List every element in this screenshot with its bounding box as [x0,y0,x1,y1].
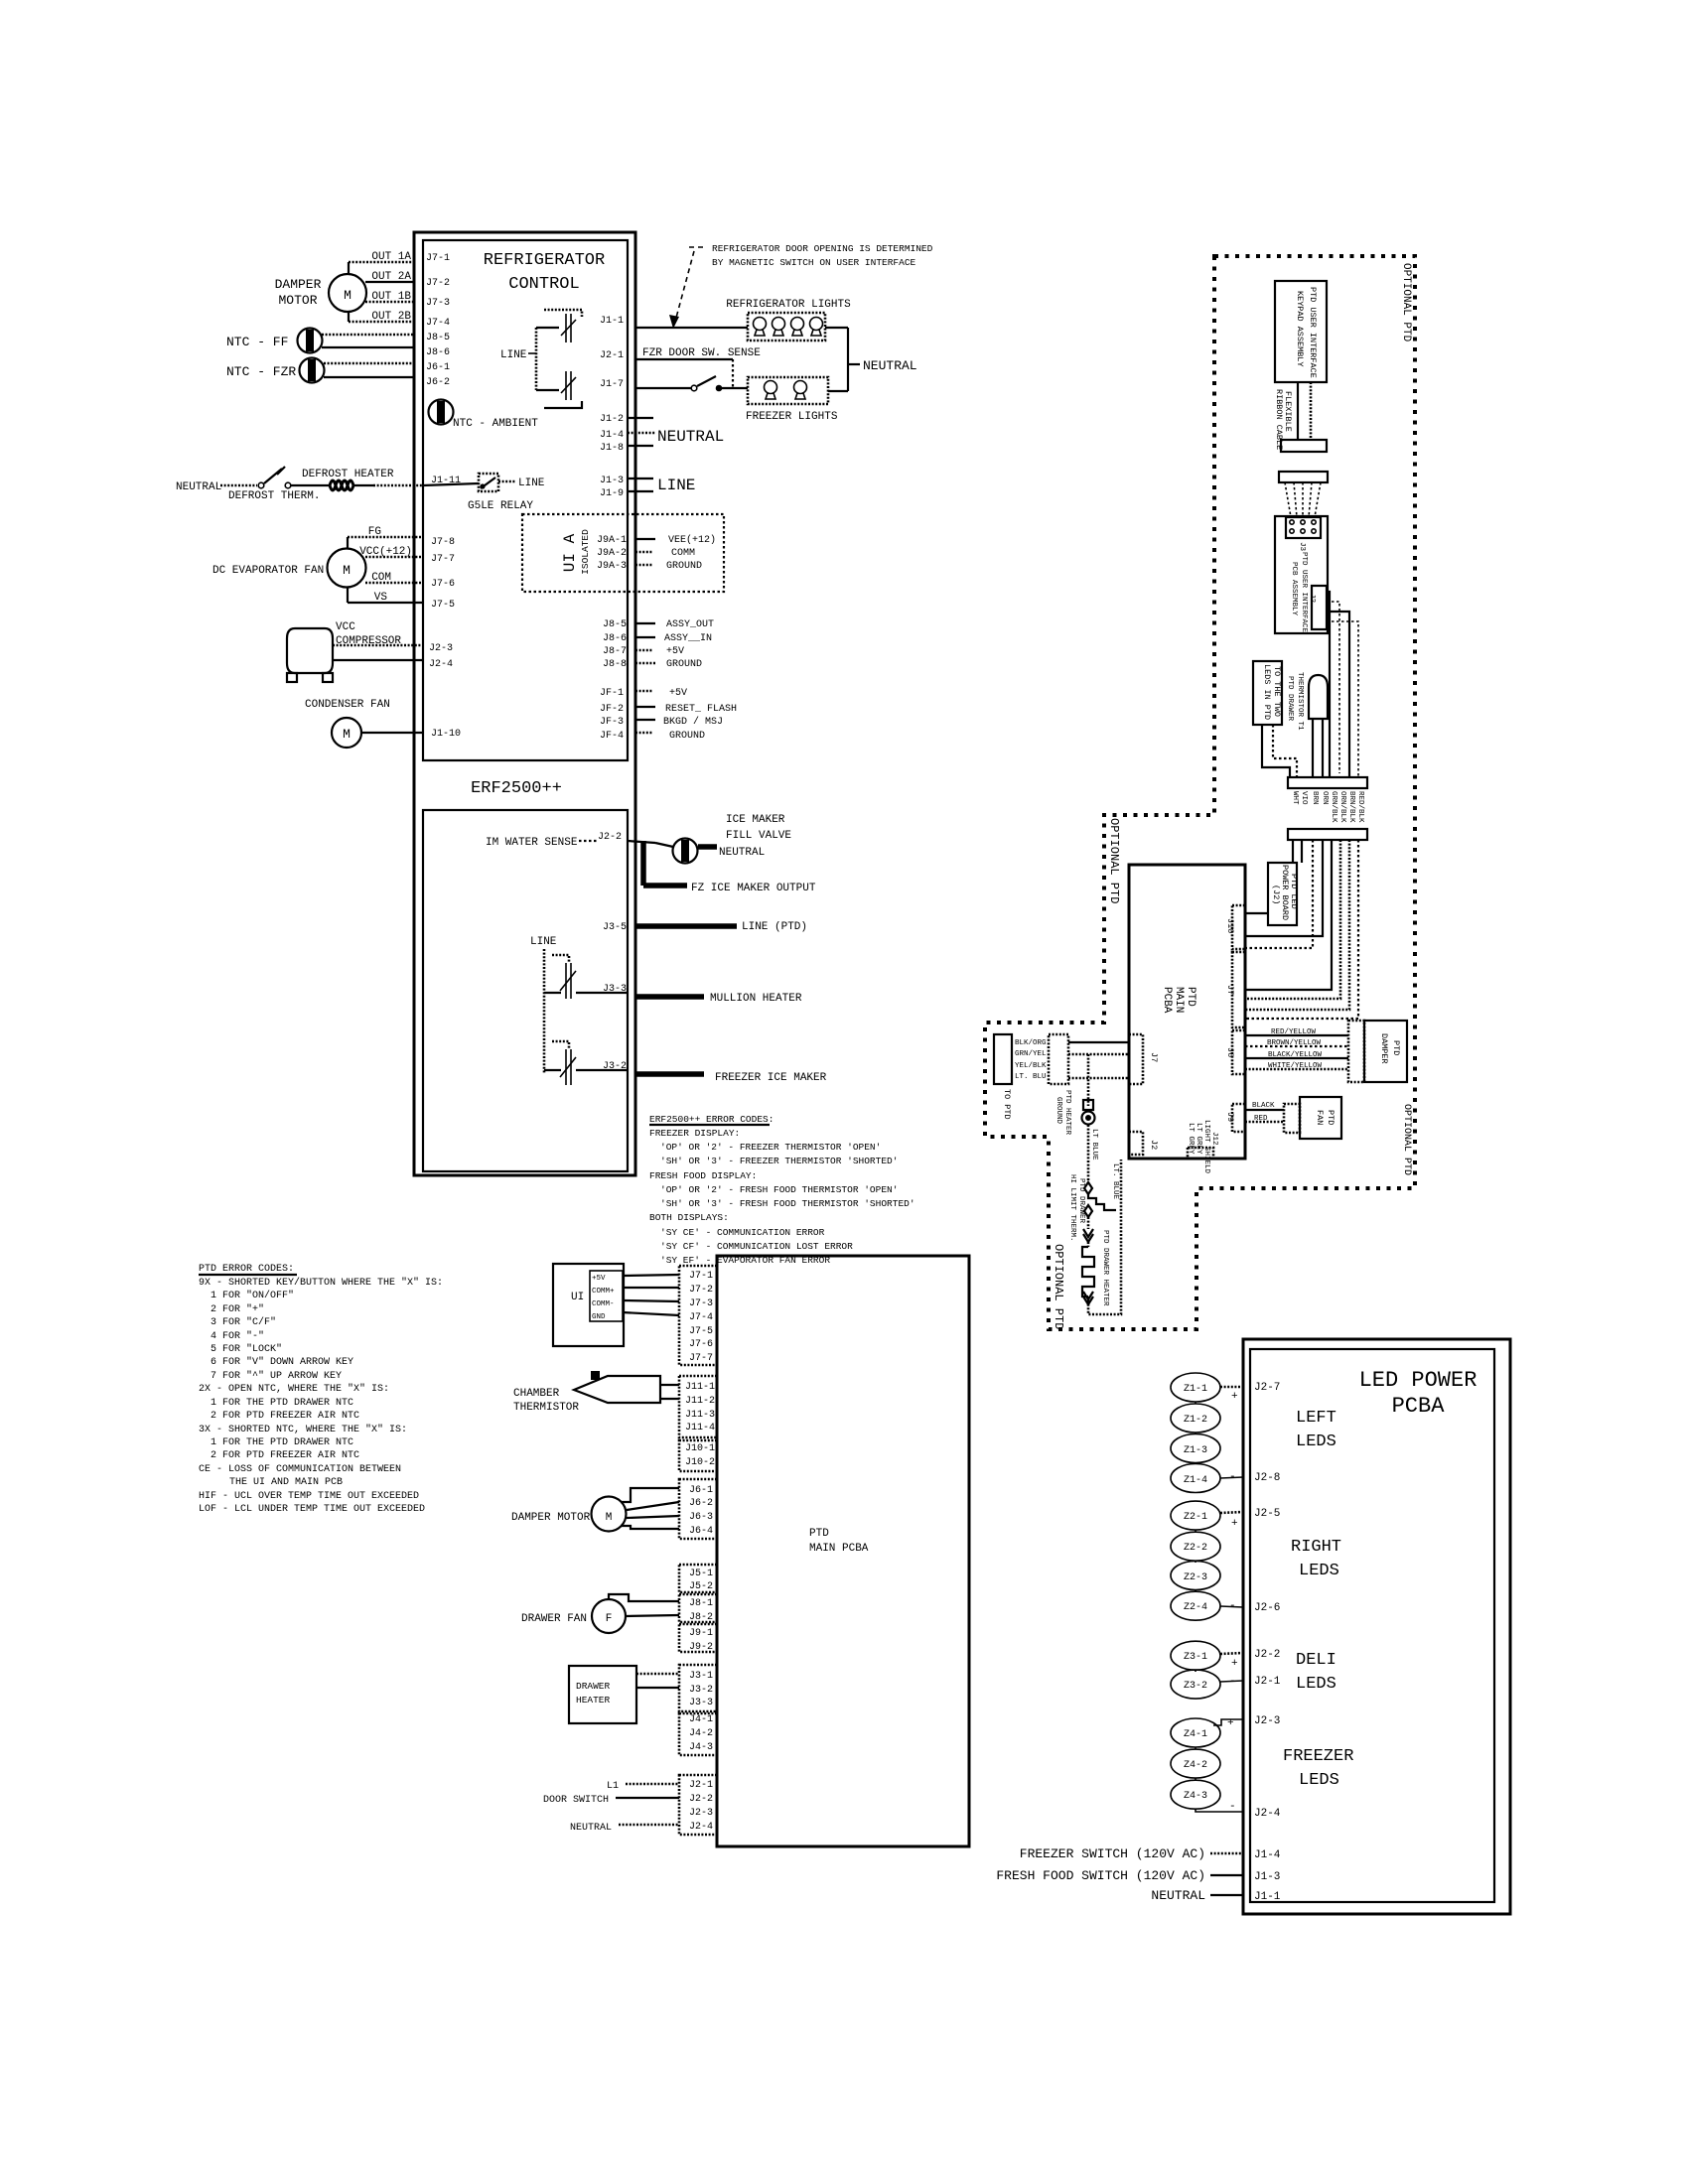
svg-text:MOTOR: MOTOR [278,293,317,308]
svg-text:J2-4: J2-4 [429,659,453,670]
svg-text:RED: RED [1254,1115,1268,1123]
svg-text:J6-1: J6-1 [426,362,450,373]
svg-text:GROUND: GROUND [669,731,705,742]
svg-text:NEUTRAL: NEUTRAL [1151,1888,1205,1903]
svg-text:J6-2: J6-2 [689,1498,713,1509]
svg-text:HEATER: HEATER [576,1695,611,1706]
svg-text:1 FOR THE PTD DRAWER NTC: 1 FOR THE PTD DRAWER NTC [211,1437,353,1448]
svg-text:J3-2: J3-2 [603,1061,627,1072]
svg-text:OPTIONAL PTD: OPTIONAL PTD [1401,1104,1412,1175]
svg-text:+: + [1231,1518,1238,1530]
svg-text:1 FOR THE PTD DRAWER NTC: 1 FOR THE PTD DRAWER NTC [211,1398,353,1409]
svg-text:BY MAGNETIC SWITCH ON USER INT: BY MAGNETIC SWITCH ON USER INTERFACE [712,257,916,268]
svg-text:ICE MAKER: ICE MAKER [726,814,785,826]
svg-text:CHAMBER: CHAMBER [513,1388,560,1400]
svg-text:ASSY_OUT: ASSY_OUT [666,619,714,630]
svg-text:J9A-2: J9A-2 [597,548,627,559]
svg-text:FAN: FAN [1315,1110,1325,1125]
svg-text:FRESH FOOD SWITCH (120V AC): FRESH FOOD SWITCH (120V AC) [996,1868,1205,1883]
svg-text:J2-3: J2-3 [1254,1715,1280,1727]
svg-text:J1-10: J1-10 [431,729,461,740]
svg-text:MULLION HEATER: MULLION HEATER [710,993,802,1005]
svg-text:UI: UI [571,1292,584,1303]
svg-text:LEDS: LEDS [1299,1562,1339,1580]
svg-text:J2: J2 [1308,594,1316,603]
svg-text:J3-2: J3-2 [689,1685,713,1696]
svg-text:Z4-3: Z4-3 [1184,1791,1207,1802]
svg-text:VEE(+12): VEE(+12) [668,534,716,546]
svg-text:Z2-1: Z2-1 [1184,1512,1207,1523]
svg-text:DRAWER FAN: DRAWER FAN [521,1613,587,1625]
svg-text:J3: J3 [1298,542,1306,552]
svg-text:LINE: LINE [530,936,557,948]
svg-text:6 FOR "V" DOWN ARROW KEY: 6 FOR "V" DOWN ARROW KEY [211,1356,353,1368]
svg-text:+5V: +5V [669,688,687,699]
svg-text:DRAWER: DRAWER [576,1681,611,1692]
svg-text:-: - [1229,1676,1236,1688]
svg-text:FILL VALVE: FILL VALVE [726,830,791,842]
svg-text:BOTH DISPLAYS:: BOTH DISPLAYS: [649,1212,729,1223]
svg-text:J2-5: J2-5 [1254,1508,1280,1520]
svg-text:PTD: PTD [809,1528,829,1540]
svg-text:J7-8: J7-8 [431,537,455,548]
svg-text:OPTIONAL PTD: OPTIONAL PTD [1052,1244,1065,1329]
svg-text:J8-6: J8-6 [603,633,627,644]
svg-text:FG: FG [368,526,381,538]
svg-text:JF-4: JF-4 [600,731,624,742]
svg-text:REFRIGERATOR: REFRIGERATOR [484,251,605,270]
svg-text:J10-2: J10-2 [685,1457,715,1468]
svg-text:COMM-: COMM- [592,1300,615,1308]
svg-text:J1-1: J1-1 [1254,1891,1281,1903]
svg-text:LIGHT SHIELD: LIGHT SHIELD [1202,1120,1210,1174]
svg-text:DC EVAPORATOR FAN: DC EVAPORATOR FAN [212,565,324,577]
svg-text:Z2-4: Z2-4 [1184,1602,1207,1613]
svg-text:NEUTRAL: NEUTRAL [176,481,221,493]
svg-text:FREEZER ICE MAKER: FREEZER ICE MAKER [715,1072,827,1084]
svg-text:J1-3: J1-3 [1254,1871,1280,1883]
svg-text:FREEZER: FREEZER [1283,1747,1353,1766]
svg-text:LT. BLU: LT. BLU [1015,1073,1047,1081]
svg-text:UI A: UI A [561,533,579,572]
svg-text:J10-1: J10-1 [685,1443,715,1454]
svg-text:-: - [1229,1471,1236,1483]
svg-text:BLACK: BLACK [1252,1102,1275,1110]
svg-text:G5LE RELAY: G5LE RELAY [468,500,533,512]
svg-text:L1: L1 [607,1781,619,1792]
svg-text:J7-6: J7-6 [431,579,455,590]
svg-text:DEFROST THERM.: DEFROST THERM. [228,490,320,502]
svg-text:J1-4: J1-4 [1254,1849,1281,1861]
svg-text:OPTIONAL PTD: OPTIONAL PTD [1107,818,1121,903]
svg-text:J7-4: J7-4 [426,318,450,329]
svg-text:JF-1: JF-1 [600,688,624,699]
svg-text:PTD USER INTERFACE: PTD USER INTERFACE [1308,287,1318,378]
svg-text:FREEZER DISPLAY:: FREEZER DISPLAY: [649,1128,740,1139]
svg-text:LEFT: LEFT [1296,1409,1336,1428]
svg-text:J7-7: J7-7 [431,554,455,565]
svg-text:MAIN: MAIN [1173,987,1185,1013]
svg-text:ORN: ORN [1321,791,1329,805]
svg-text:ERF2500++: ERF2500++ [471,779,562,798]
svg-text:J6-1: J6-1 [689,1485,713,1496]
svg-text:J7-4: J7-4 [689,1312,713,1323]
svg-text:FZR DOOR SW. SENSE: FZR DOOR SW. SENSE [642,347,761,359]
svg-text:J2-1: J2-1 [1254,1676,1281,1688]
svg-text:J1-1: J1-1 [600,316,624,327]
svg-text:DELI: DELI [1296,1651,1336,1670]
svg-text:3 FOR "C/F": 3 FOR "C/F" [211,1316,276,1328]
svg-text:J1-8: J1-8 [600,443,624,454]
svg-text:HI LIMIT THERM.: HI LIMIT THERM. [1068,1174,1076,1242]
svg-text:J7-5: J7-5 [431,600,455,611]
svg-text:'SH' OR '3' - FRESH FOOD THERM: 'SH' OR '3' - FRESH FOOD THERMISTOR 'SHO… [660,1198,915,1209]
svg-text:'OP' OR '2' - FRESH FOOD THERM: 'OP' OR '2' - FRESH FOOD THERMISTOR 'OPE… [660,1184,898,1195]
svg-text:TO THE TWO: TO THE TWO [1272,666,1282,717]
svg-text:J1-4: J1-4 [600,430,624,441]
svg-text:NEUTRAL: NEUTRAL [657,428,724,446]
svg-text:M: M [344,288,352,303]
svg-text:J12: J12 [1210,1132,1218,1146]
svg-text:THE UI AND MAIN PCB: THE UI AND MAIN PCB [229,1477,343,1488]
svg-text:+: + [1227,1717,1234,1729]
svg-text:LEDS IN PTD: LEDS IN PTD [1262,664,1272,720]
svg-text:J2-2: J2-2 [1254,1649,1280,1661]
svg-text:Z1-3: Z1-3 [1184,1445,1207,1456]
svg-text:-: - [1229,1801,1236,1813]
svg-text:J7-5: J7-5 [689,1326,713,1337]
svg-text:2 FOR PTD FREEZER AIR NTC: 2 FOR PTD FREEZER AIR NTC [211,1411,359,1422]
svg-text:GROUND: GROUND [666,561,702,572]
svg-text:ISOLATED: ISOLATED [580,529,591,575]
svg-text:'SH' OR '3' - FREEZER THERMIST: 'SH' OR '3' - FREEZER THERMISTOR 'SHORTE… [660,1156,898,1166]
svg-text:J2-3: J2-3 [689,1808,713,1819]
svg-text:7 FOR "^" UP ARROW KEY: 7 FOR "^" UP ARROW KEY [211,1370,342,1382]
svg-text:J7-6: J7-6 [689,1339,713,1350]
svg-text:J1-7: J1-7 [600,379,624,390]
svg-text:J6-3: J6-3 [689,1512,713,1523]
svg-text:PTD DRAWER HEATER: PTD DRAWER HEATER [1101,1230,1109,1306]
svg-text:J9-2: J9-2 [689,1642,713,1653]
svg-text:DAMPER: DAMPER [1379,1033,1389,1064]
svg-text:Z2-3: Z2-3 [1184,1572,1207,1583]
svg-text:HIF - UCL OVER TEMP TIME OUT E: HIF - UCL OVER TEMP TIME OUT EXCEEDED [199,1491,419,1502]
svg-text:LT. BLUE: LT. BLUE [1111,1163,1119,1200]
svg-text:J3-3: J3-3 [689,1698,713,1708]
svg-text:J1-9: J1-9 [600,488,624,499]
svg-text:PTD USER INTERFACE: PTD USER INTERFACE [1300,552,1308,633]
svg-text:J8-8: J8-8 [603,659,627,670]
svg-text:IM WATER SENSE: IM WATER SENSE [486,837,578,849]
svg-text:+: + [1231,1391,1238,1403]
svg-text:OUT 1A: OUT 1A [371,251,411,263]
svg-text:LT BLUE: LT BLUE [1090,1129,1098,1160]
svg-text:COM: COM [371,572,391,584]
svg-text:BRN/BLK: BRN/BLK [1347,791,1355,823]
svg-text:VCC: VCC [336,621,355,633]
svg-text:J3-3: J3-3 [603,984,627,995]
svg-text:BLACK/YELLOW: BLACK/YELLOW [1268,1051,1323,1059]
svg-text:PTD: PTD [1391,1040,1401,1055]
svg-text:DAMPER MOTOR: DAMPER MOTOR [511,1512,591,1524]
svg-text:NEUTRAL: NEUTRAL [863,358,917,373]
svg-text:JF-3: JF-3 [600,717,624,728]
svg-text:LINE: LINE [657,477,695,494]
svg-text:LED POWER: LED POWER [1359,1368,1477,1393]
svg-text:M: M [343,563,351,578]
svg-text:ERF2500++ ERROR CODES:: ERF2500++ ERROR CODES: [649,1114,774,1125]
svg-text:J7-2: J7-2 [426,278,450,289]
svg-text:GRN/YEL: GRN/YEL [1015,1050,1047,1058]
svg-text:PCBA: PCBA [1392,1394,1446,1419]
svg-text:TO PTD: TO PTD [1002,1089,1012,1120]
svg-text:J2-3: J2-3 [429,643,453,654]
svg-text:NTC - AMBIENT: NTC - AMBIENT [453,418,538,430]
svg-text:WHITE/YELLOW: WHITE/YELLOW [1268,1062,1323,1070]
svg-text:PTD: PTD [1185,987,1196,1007]
svg-text:LT GREY: LT GREY [1195,1123,1202,1155]
svg-text:THERMISTOR: THERMISTOR [513,1402,579,1414]
svg-text:+5V: +5V [592,1275,606,1283]
svg-text:RIGHT: RIGHT [1291,1538,1341,1557]
svg-text:J2-1: J2-1 [689,1780,713,1791]
svg-text:Z3-2: Z3-2 [1184,1681,1207,1692]
svg-text:COMM: COMM [671,548,695,559]
svg-text:2 FOR PTD FREEZER AIR NTC: 2 FOR PTD FREEZER AIR NTC [211,1450,359,1461]
svg-text:1 FOR "ON/OFF": 1 FOR "ON/OFF" [211,1290,294,1301]
svg-text:OUT 2B: OUT 2B [371,311,411,323]
svg-text:J5-1: J5-1 [689,1569,713,1579]
svg-text:4 FOR "-": 4 FOR "-" [211,1330,264,1342]
svg-text:J2-6: J2-6 [1254,1602,1280,1614]
svg-text:THERMISTOR T1: THERMISTOR T1 [1296,672,1304,731]
svg-text:Z1-1: Z1-1 [1184,1384,1207,1395]
svg-text:J2-4: J2-4 [689,1822,713,1833]
svg-text:J5-2: J5-2 [689,1581,713,1592]
svg-text:J7-2: J7-2 [689,1285,713,1296]
svg-text:OUT 2A: OUT 2A [371,271,411,283]
svg-text:J4-3: J4-3 [689,1742,713,1753]
svg-text:PCB ASSEMBLY: PCB ASSEMBLY [1290,562,1298,616]
svg-text:M: M [343,727,351,742]
svg-text:J9-1: J9-1 [689,1628,713,1639]
svg-text:J6: J6 [1225,1047,1235,1057]
svg-text:J6-4: J6-4 [689,1526,713,1537]
svg-text:PTD DRAWER: PTD DRAWER [1077,1178,1085,1224]
svg-text:J11-1: J11-1 [685,1382,715,1393]
svg-text:PTD ERROR CODES:: PTD ERROR CODES: [199,1264,294,1275]
svg-text:LEDS: LEDS [1296,1433,1336,1451]
svg-text:LEDS: LEDS [1299,1771,1339,1790]
svg-text:J2-2: J2-2 [598,832,622,843]
svg-text:J7: J7 [1149,1052,1159,1062]
svg-text:Z4-1: Z4-1 [1184,1729,1207,1740]
svg-text:LINE: LINE [500,349,527,361]
svg-text:FZ ICE MAKER OUTPUT: FZ ICE MAKER OUTPUT [691,883,816,894]
svg-text:J10: J10 [1225,918,1235,933]
svg-text:LT GREY: LT GREY [1187,1123,1195,1155]
svg-text:J1-3: J1-3 [600,476,624,486]
svg-text:J8-1: J8-1 [689,1598,713,1609]
svg-text:J7: J7 [1225,985,1235,995]
svg-text:BROWN/YELLOW: BROWN/YELLOW [1267,1039,1322,1047]
svg-text:J9: J9 [1225,1112,1235,1122]
svg-text:J9A-1: J9A-1 [597,535,627,546]
svg-text:BKGD / MSJ: BKGD / MSJ [663,716,723,728]
svg-text:CE - LOSS OF COMMUNICATION BET: CE - LOSS OF COMMUNICATION BETWEEN [199,1464,401,1475]
svg-text:J8-5: J8-5 [426,333,450,343]
svg-text:Z3-1: Z3-1 [1184,1652,1207,1663]
svg-text:LINE: LINE [518,478,545,489]
svg-text:J4-2: J4-2 [689,1728,713,1739]
svg-text:J8-6: J8-6 [426,347,450,358]
svg-text:GROUND: GROUND [666,659,702,670]
svg-text:J2-1: J2-1 [600,350,624,361]
svg-text:PTD HEATER: PTD HEATER [1063,1090,1071,1136]
svg-text:VS: VS [374,592,388,604]
svg-text:VIO: VIO [1300,791,1308,805]
svg-text:OPTIONAL PTD: OPTIONAL PTD [1400,263,1412,342]
svg-text:J6-2: J6-2 [426,377,450,388]
svg-text:J8-5: J8-5 [603,619,627,630]
svg-text:MAIN PCBA: MAIN PCBA [809,1543,869,1555]
svg-text:Z1-4: Z1-4 [1184,1475,1207,1486]
svg-text:Z4-2: Z4-2 [1184,1760,1207,1771]
svg-text:GROUND: GROUND [1055,1097,1062,1125]
svg-text:J1-2: J1-2 [600,414,624,425]
svg-text:J3-1: J3-1 [689,1671,713,1682]
svg-text:J4-1: J4-1 [689,1714,713,1725]
svg-text:'SY CE' - COMMUNICATION ERROR: 'SY CE' - COMMUNICATION ERROR [660,1227,825,1238]
svg-text:FREEZER LIGHTS: FREEZER LIGHTS [746,411,838,423]
svg-text:CONTROL: CONTROL [508,275,579,294]
svg-text:DEFROST HEATER: DEFROST HEATER [302,469,394,480]
svg-text:5 FOR "LOCK": 5 FOR "LOCK" [211,1343,282,1355]
svg-text:J11-4: J11-4 [685,1423,715,1433]
svg-text:DAMPER: DAMPER [275,277,322,292]
svg-text:CONDENSER FAN: CONDENSER FAN [305,699,390,711]
svg-text:COMM+: COMM+ [592,1288,615,1296]
svg-text:-: - [1229,1600,1236,1612]
svg-text:NEUTRAL: NEUTRAL [570,1823,612,1834]
svg-text:J2-4: J2-4 [1254,1808,1281,1820]
svg-text:REFRIGERATOR LIGHTS: REFRIGERATOR LIGHTS [726,299,851,311]
svg-text:ORN/BLK: ORN/BLK [1338,791,1346,823]
svg-text:BRN: BRN [1311,791,1319,805]
svg-text:GND: GND [592,1313,606,1321]
svg-text:J2-7: J2-7 [1254,1382,1280,1394]
svg-text:KEYPAD ASSEMBLY: KEYPAD ASSEMBLY [1295,291,1305,367]
svg-text:J8-2: J8-2 [689,1612,713,1623]
svg-text:JF-2: JF-2 [600,704,624,715]
svg-text:+: + [1231,1658,1238,1670]
svg-text:PTD: PTD [1326,1110,1336,1125]
svg-text:'OP' OR '2' - FREEZER THERMIST: 'OP' OR '2' - FREEZER THERMISTOR 'OPEN' [660,1142,881,1153]
svg-text:'SY CF' - COMMUNICATION LOST E: 'SY CF' - COMMUNICATION LOST ERROR [660,1241,853,1252]
svg-text:J9A-3: J9A-3 [597,561,627,572]
svg-text:ASSY__IN: ASSY__IN [664,633,712,644]
svg-text:PCBA: PCBA [1161,987,1173,1014]
svg-text:J2-2: J2-2 [689,1794,713,1805]
svg-text:J8-7: J8-7 [603,646,627,657]
svg-text:J7-1: J7-1 [426,253,450,264]
svg-text:NTC - FZR: NTC - FZR [226,364,296,379]
svg-text:J11-3: J11-3 [685,1410,715,1421]
svg-text:J7-7: J7-7 [689,1353,713,1364]
svg-text:WHT: WHT [1291,791,1299,805]
svg-text:BLK/ORG: BLK/ORG [1015,1039,1047,1047]
svg-text:PTD DRAWER: PTD DRAWER [1286,676,1294,722]
svg-text:NEUTRAL: NEUTRAL [719,847,765,859]
svg-text:J2: J2 [1149,1140,1159,1150]
svg-text:M: M [606,1512,613,1524]
svg-text:Z1-2: Z1-2 [1184,1415,1207,1426]
svg-text:REFRIGERATOR DOOR OPENING IS D: REFRIGERATOR DOOR OPENING IS DETERMINED [712,243,933,254]
svg-text:VCC(+12): VCC(+12) [359,546,412,558]
svg-text:RED/YELLOW: RED/YELLOW [1271,1028,1317,1036]
svg-text:LEDS: LEDS [1296,1675,1336,1694]
svg-text:DOOR SWITCH: DOOR SWITCH [543,1795,609,1806]
svg-text:OUT 1B: OUT 1B [371,291,411,303]
svg-text:J11-2: J11-2 [685,1396,715,1407]
svg-text:2 FOR "+": 2 FOR "+" [211,1303,264,1315]
svg-text:LINE (PTD): LINE (PTD) [742,921,807,933]
svg-text:2X - OPEN NTC, WHERE THE "X" I: 2X - OPEN NTC, WHERE THE "X" IS: [199,1383,389,1395]
svg-text:RED/BLK: RED/BLK [1356,791,1364,823]
svg-text:J7-3: J7-3 [689,1298,713,1309]
svg-text:9X - SHORTED KEY/BUTTON WHERE: 9X - SHORTED KEY/BUTTON WHERE THE "X" IS… [199,1277,443,1289]
svg-text:Z2-2: Z2-2 [1184,1543,1207,1554]
svg-text:F: F [606,1613,613,1625]
svg-text:J7-1: J7-1 [689,1271,713,1282]
svg-text:YEL/BLK: YEL/BLK [1015,1062,1047,1070]
svg-text:3X - SHORTED NTC, WHERE THE "X: 3X - SHORTED NTC, WHERE THE "X" IS: [199,1424,407,1435]
svg-text:NTC - FF: NTC - FF [226,335,288,349]
svg-text:(J2): (J2) [1271,885,1281,904]
svg-text:J7-3: J7-3 [426,298,450,309]
svg-text:FREEZER SWITCH (120V AC): FREEZER SWITCH (120V AC) [1020,1846,1205,1861]
svg-text:J2-8: J2-8 [1254,1472,1280,1484]
svg-text:LOF - LCL UNDER TEMP TIME OUT: LOF - LCL UNDER TEMP TIME OUT EXCEEDED [199,1504,425,1515]
svg-text:RESET_ FLASH: RESET_ FLASH [665,704,737,715]
svg-text:GRN/BLK: GRN/BLK [1330,791,1337,823]
svg-text:FRESH FOOD DISPLAY:: FRESH FOOD DISPLAY: [649,1170,757,1181]
svg-text:J3-5: J3-5 [603,922,627,933]
svg-text:+5V: +5V [666,646,684,657]
